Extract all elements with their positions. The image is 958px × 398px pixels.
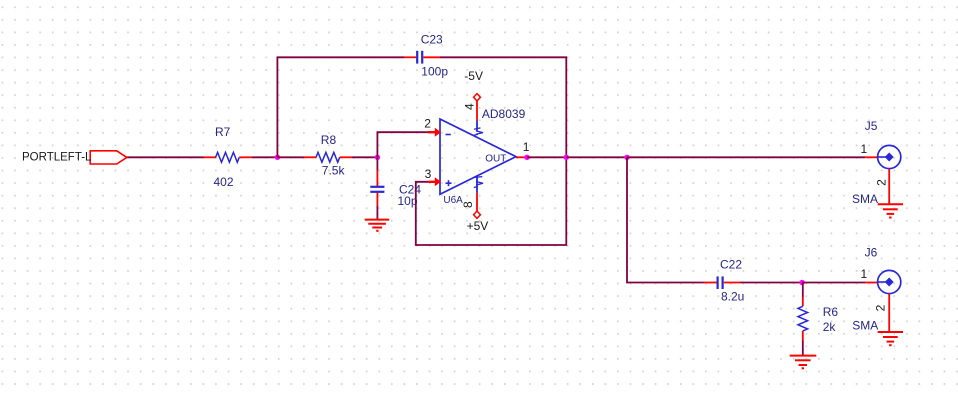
svg-text:10p: 10p (398, 194, 418, 208)
connector J5 (852, 119, 901, 206)
svg-text:1: 1 (861, 267, 868, 281)
wire: port to R7 (127, 156, 204, 158)
svg-text:2: 2 (424, 116, 431, 130)
wire: node A to R8 (277, 156, 304, 158)
svg-text:8: 8 (461, 201, 475, 208)
svg-text:C23: C23 (421, 32, 443, 46)
wire: node A up to C23 (277, 57, 404, 157)
wire: node C down to C22 (627, 157, 704, 282)
svg-text:+5V: +5V (467, 219, 489, 233)
svg-text:2k: 2k (823, 320, 837, 334)
junction at pin 1 (524, 155, 529, 160)
op-amp pin 2 (inverting input) (424, 116, 441, 136)
power pin 8 / +5V symbol (461, 176, 488, 233)
wire: pin 1 to output node (527, 156, 566, 158)
svg-text:R8: R8 (321, 133, 337, 147)
svg-text:100p: 100p (421, 65, 448, 79)
svg-text:C22: C22 (720, 257, 742, 271)
wire: node B up to op-amp pin 2 (377, 132, 428, 157)
resistor R6 (798, 297, 838, 341)
power pin 4 / -5V symbol (463, 69, 484, 135)
svg-text:2: 2 (875, 179, 889, 186)
svg-text:2: 2 (874, 304, 888, 311)
resistor R7 (204, 125, 253, 189)
svg-text:AD8039: AD8039 (482, 107, 526, 121)
ground (R6) (790, 356, 817, 369)
node C junction (624, 155, 629, 160)
node A junction (275, 155, 280, 160)
svg-text:J6: J6 (865, 246, 878, 260)
connector J6 (852, 246, 901, 333)
capacitor C23 (404, 32, 448, 78)
capacitor C24 (370, 170, 421, 208)
ground (J6) (878, 332, 903, 345)
svg-text:-5V: -5V (464, 69, 483, 83)
svg-text:R6: R6 (823, 305, 839, 319)
ground (C24) (365, 220, 390, 231)
svg-text:PORTLEFT-L: PORTLEFT-L (22, 152, 92, 164)
svg-text:4: 4 (463, 103, 477, 110)
wire: C24 to ground (376, 206, 378, 220)
capacitor C22 (704, 257, 745, 303)
svg-text:R7: R7 (215, 125, 231, 139)
ground (J5) (878, 204, 903, 217)
op-amp value AD8039 (482, 107, 526, 121)
svg-text:SMA: SMA (852, 192, 878, 206)
svg-text:1: 1 (861, 142, 868, 156)
wire: node D to J6 (802, 282, 865, 284)
svg-text:SMA: SMA (852, 319, 878, 333)
wire: node B down to C24 (376, 157, 378, 170)
op-amp U6A (440, 119, 516, 206)
node D junction (799, 280, 804, 285)
port PORTLEFT-L (22, 151, 127, 164)
svg-text:1: 1 (523, 140, 530, 154)
node B junction (375, 155, 380, 160)
wire: R8 to node B (352, 156, 377, 158)
svg-text:7.5k: 7.5k (322, 164, 346, 178)
svg-text:8.2u: 8.2u (721, 289, 744, 303)
op-amp pin 3 (non-inverting input) (425, 167, 441, 186)
wire: C22 to node D (740, 282, 802, 284)
wire: node C to J5 (627, 156, 865, 158)
resistor R8 (304, 133, 352, 177)
wire: R7 to node A (252, 156, 277, 158)
op-amp pin 1 output lead (516, 140, 530, 158)
svg-text:OUT: OUT (485, 153, 506, 164)
wire: pin 3 to bottom feedback loop (416, 157, 567, 245)
svg-text:J5: J5 (865, 119, 878, 133)
svg-text:3: 3 (425, 167, 432, 181)
wire: C23 to output node (440, 57, 567, 157)
wire: R6 to ground (802, 341, 804, 356)
wire: node D down to R6 (802, 283, 804, 298)
output node junction (564, 155, 569, 160)
wire: output node to node C (566, 156, 627, 158)
svg-text:402: 402 (214, 175, 234, 189)
